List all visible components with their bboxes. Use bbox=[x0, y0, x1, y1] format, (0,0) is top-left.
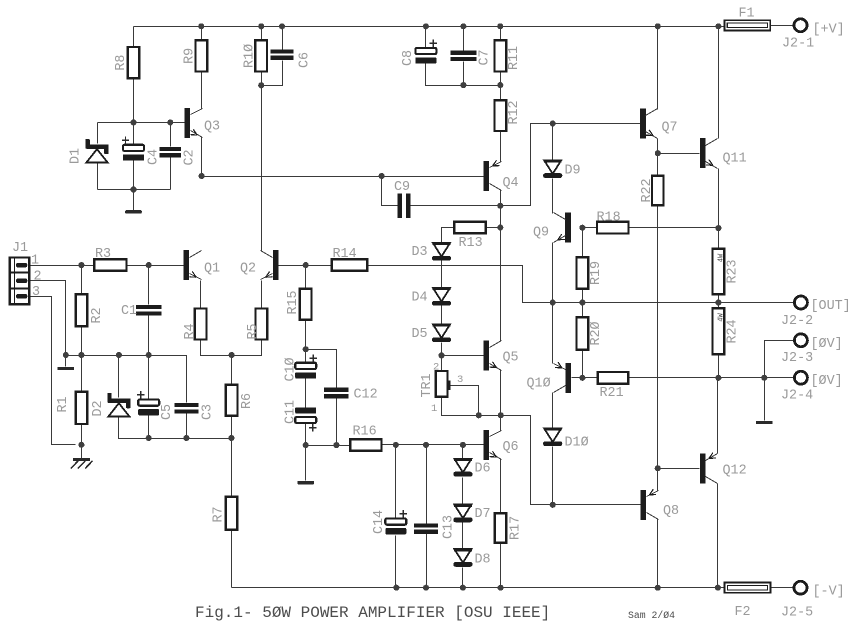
label R5 bbox=[246, 323, 261, 339]
wire J2-3 lead bbox=[765, 341, 794, 378]
wire J1 pin2 down bbox=[30, 281, 66, 356]
wire R9 top lead bbox=[201, 27, 203, 41]
wire D2 bottom lead bbox=[119, 417, 149, 439]
svg-text:R8: R8 bbox=[114, 55, 129, 71]
wire R1 bottom lead bbox=[81, 425, 83, 445]
junction R11-R12 junction bbox=[497, 82, 503, 88]
ground pin2 node bbox=[58, 367, 75, 370]
junction C4 bottom / ground node bbox=[130, 186, 136, 192]
wire R20 bottom lead bbox=[582, 350, 584, 378]
terminal J2-4 bbox=[794, 371, 807, 384]
svg-text:C8: C8 bbox=[401, 50, 416, 66]
svg-text:C3: C3 bbox=[201, 404, 216, 420]
pin 3 label TR1 bbox=[457, 374, 463, 386]
svg-text:R16: R16 bbox=[353, 425, 377, 440]
label Q3 bbox=[204, 120, 220, 135]
svg-text:[+V]: [+V] bbox=[813, 23, 845, 38]
wire Q2 base to node bbox=[279, 265, 306, 267]
wire D9 top lead bbox=[552, 124, 554, 161]
junction R15 bottom / C10 / C12 node bbox=[303, 346, 309, 352]
capacitor C10 bbox=[295, 354, 317, 378]
net label [0V] J2-4 bbox=[811, 374, 843, 389]
wire R17 bottom lead bbox=[500, 543, 502, 588]
resistor R1 bbox=[76, 392, 88, 424]
resistor R21 bbox=[598, 372, 629, 384]
resistor R12 bbox=[495, 100, 507, 131]
svg-text:Q8: Q8 bbox=[663, 504, 679, 519]
wire Q6 collector lead bbox=[500, 416, 502, 431]
fuse F2 bbox=[725, 583, 771, 593]
transistor Q8 bbox=[640, 489, 658, 520]
connector J1 bbox=[10, 258, 30, 305]
wire J2-4 rail link bbox=[719, 377, 765, 379]
wire F2 to J2-5 bbox=[771, 587, 794, 589]
capacitor C4 bbox=[122, 137, 144, 161]
wire J1 pin1 to R3 bbox=[30, 265, 95, 267]
svg-text:4W: 4W bbox=[717, 253, 725, 262]
junction D6 top / Q6 base rail bbox=[460, 442, 466, 448]
junction Q3 emitter / Q1 collector bbox=[199, 173, 205, 179]
wire D1-C4-C2 top rail bbox=[98, 122, 185, 124]
label D9 bbox=[565, 164, 581, 179]
label R9 bbox=[183, 48, 198, 64]
svg-text:C1Ø: C1Ø bbox=[284, 357, 299, 381]
junction R8-C4-D1 node bbox=[130, 119, 136, 125]
resistor R23 bbox=[713, 249, 725, 294]
label R8 bbox=[114, 55, 129, 71]
svg-text:[ØV]: [ØV] bbox=[811, 337, 843, 352]
ground below C4 bbox=[125, 210, 142, 213]
junction Q7 emitter / Q11 base / R22 bbox=[655, 150, 661, 156]
wire C14 bottom lead bbox=[395, 536, 397, 588]
capacitor C3 bbox=[174, 403, 198, 414]
junction J2-3/J2-4 ground tie bbox=[761, 375, 767, 381]
wire C1 bottom lead bbox=[148, 316, 150, 356]
wire Q7 emitter lead bbox=[657, 139, 659, 154]
wire D3-D4 link bbox=[441, 261, 443, 288]
wire Q5 emitter lead bbox=[500, 371, 502, 416]
wire R16 left rail bbox=[306, 445, 351, 447]
junction R20 / Q10 base / R21 node bbox=[579, 375, 585, 381]
junction R9 top / +V bus bbox=[198, 23, 204, 29]
svg-text:1: 1 bbox=[431, 403, 437, 415]
wire R13 right lead bbox=[486, 227, 501, 229]
svg-text:J2-1: J2-1 bbox=[782, 37, 814, 52]
wire C7 bottom lead bbox=[463, 62, 465, 86]
junction C8 top / +V bus bbox=[423, 23, 429, 29]
wire Q8 emitter lead bbox=[657, 469, 659, 491]
label TR1 bbox=[420, 373, 435, 397]
wire R1 top lead bbox=[81, 356, 83, 392]
capacitor C13 bbox=[414, 523, 438, 534]
junction R17 bottom / -V bus bbox=[498, 585, 504, 591]
svg-text:TR1: TR1 bbox=[420, 373, 435, 397]
wire Q8 collector lead bbox=[657, 520, 659, 588]
svg-text:C2: C2 bbox=[183, 149, 198, 165]
junction C7 bottom rail bbox=[460, 82, 466, 88]
svg-text:Q2: Q2 bbox=[240, 262, 256, 277]
label D7 bbox=[475, 507, 491, 522]
ground below J2-4 bbox=[756, 421, 773, 424]
resistor R18 bbox=[597, 222, 629, 234]
svg-text:J2-4: J2-4 bbox=[781, 389, 813, 404]
junction C5 top / gnd bus bbox=[146, 352, 152, 358]
wire C10-C11 link bbox=[305, 379, 307, 408]
svg-text:R5: R5 bbox=[246, 323, 261, 339]
junction R24 bottom / Q12 emitter node bbox=[715, 375, 721, 381]
junction C11 bottom / R16 / gnd node bbox=[303, 442, 309, 448]
junction C7 top / +V bus bbox=[460, 23, 466, 29]
junction C3 bottom rail bbox=[183, 435, 189, 441]
svg-text:C1: C1 bbox=[121, 304, 137, 319]
wire R23 top lead bbox=[718, 229, 720, 249]
transistor Q1 bbox=[183, 250, 201, 280]
label R4 bbox=[183, 323, 198, 339]
label R11 bbox=[507, 46, 522, 70]
label J2-5 bbox=[781, 606, 813, 621]
wire Q11 collector lead bbox=[718, 27, 720, 139]
wire feedback R14 rail bbox=[368, 266, 794, 303]
svg-text:R11: R11 bbox=[507, 46, 522, 70]
resistor R11 bbox=[495, 40, 507, 71]
wire R21 left lead bbox=[583, 377, 598, 379]
svg-text:C14: C14 bbox=[372, 510, 387, 534]
junction TR1 pin1-pin3 tie bbox=[476, 412, 482, 418]
label R22 bbox=[640, 178, 655, 202]
zener D1 bbox=[85, 139, 108, 163]
label J2-2 bbox=[781, 314, 813, 329]
svg-text:D7: D7 bbox=[475, 507, 491, 522]
wire Q7 collector lead bbox=[657, 27, 659, 110]
pin 3 label J1 bbox=[32, 285, 40, 300]
terminal J2-2 bbox=[794, 296, 807, 309]
resistor R10 bbox=[255, 40, 267, 71]
svg-text:Sam 2/Ø4: Sam 2/Ø4 bbox=[628, 610, 675, 621]
diode D6 bbox=[453, 459, 472, 477]
wire J1 pin3 down bbox=[30, 297, 76, 445]
wire Q4 collector lead bbox=[500, 191, 502, 206]
value label 4W R23 bbox=[717, 253, 725, 262]
resistor R7 bbox=[226, 497, 238, 530]
wire Q6 emitter to R17 bbox=[500, 460, 502, 514]
junction C9 tee / Q4 base rail bbox=[379, 173, 385, 179]
net label [0V] J2-3 bbox=[811, 337, 843, 352]
wire C5 top lead bbox=[148, 356, 150, 400]
wire Q12 collector lead bbox=[717, 484, 719, 588]
wire R23 bottom lead bbox=[718, 295, 720, 303]
resistor R24 bbox=[713, 308, 725, 354]
terminal J2-5 bbox=[794, 581, 807, 594]
svg-text:D1Ø: D1Ø bbox=[565, 436, 589, 451]
ground below C11 bbox=[297, 481, 314, 484]
label Q9 bbox=[533, 226, 549, 241]
svg-text:D8: D8 bbox=[475, 553, 491, 568]
capacitor C14 bbox=[385, 510, 407, 534]
wire R8 bottom lead bbox=[133, 79, 135, 123]
junction D8 bottom / -V bus bbox=[460, 585, 466, 591]
wire +V top bus bbox=[134, 26, 725, 28]
wire C4 ground stub bbox=[133, 190, 135, 211]
label R1 bbox=[56, 396, 71, 412]
wire R9 to Q3 collector bbox=[201, 72, 203, 109]
wire R16 right rail bbox=[382, 444, 484, 446]
wire C9 right lead bbox=[411, 205, 501, 207]
wire Q9 emitter to OUT rail bbox=[552, 243, 554, 303]
wire R21 right lead bbox=[629, 377, 719, 379]
transistor Q6 bbox=[484, 430, 502, 460]
terminal J2-3 bbox=[794, 334, 807, 347]
net label [+V] bbox=[813, 23, 845, 38]
junction R11 top / +V bus bbox=[497, 23, 503, 29]
label R15 bbox=[286, 290, 301, 314]
svg-text:D5: D5 bbox=[412, 327, 428, 342]
terminal J2-1 bbox=[794, 19, 807, 32]
junction C12 bottom / R16 rail bbox=[333, 442, 339, 448]
wire OUT rail to Q10 emitter bbox=[552, 303, 554, 364]
diode D4 bbox=[432, 288, 451, 306]
label C5 bbox=[160, 404, 175, 420]
svg-text:J1: J1 bbox=[12, 241, 28, 256]
junction C13 top / Q6 base rail bbox=[423, 442, 429, 448]
wire R10 top lead bbox=[261, 27, 263, 41]
svg-text:R3: R3 bbox=[95, 247, 111, 262]
capacitor C6 bbox=[271, 49, 294, 60]
label D8 bbox=[475, 553, 491, 568]
junction Q9 base / R18 / R19 node bbox=[579, 225, 585, 231]
label R23 bbox=[726, 259, 741, 283]
junction R6 bottom / R7 top bbox=[228, 435, 234, 441]
label Q2 bbox=[240, 262, 256, 277]
label Q11 bbox=[723, 152, 747, 167]
wire D8 bottom lead bbox=[462, 568, 464, 588]
wire gnd stub pin2 node bbox=[65, 356, 67, 367]
label C12 bbox=[354, 388, 378, 403]
label C8 bbox=[401, 50, 416, 66]
label J1 bbox=[12, 241, 28, 256]
junction Q8 collector / -V bus bbox=[655, 585, 661, 591]
wire D7-D8 link bbox=[462, 523, 464, 550]
junction Q12 collector / F2 node bbox=[715, 585, 721, 591]
label Q5 bbox=[503, 351, 519, 366]
resistor R14 bbox=[332, 259, 367, 271]
label R18 bbox=[597, 211, 621, 226]
junction D10 bottom / Q8 base rail bbox=[550, 502, 556, 508]
diode D8 bbox=[453, 549, 472, 567]
wire -V bottom bus bbox=[232, 587, 725, 589]
label Q1 bbox=[204, 262, 220, 277]
label D2 bbox=[91, 400, 106, 416]
wire R22 top lead bbox=[657, 154, 659, 176]
wire Q7 to Q11 base bbox=[658, 153, 700, 155]
wire R1 gnd stub bbox=[81, 445, 83, 460]
svg-text:[-V]: [-V] bbox=[813, 585, 845, 600]
wire R19 bottom lead bbox=[582, 289, 584, 303]
label R3 bbox=[95, 247, 111, 262]
transistor Q10 bbox=[554, 362, 572, 393]
wire R15 to C10 bbox=[305, 320, 307, 350]
label R14 bbox=[333, 247, 357, 262]
svg-text:Q12: Q12 bbox=[723, 464, 747, 479]
transistor Q11 bbox=[700, 138, 718, 168]
wire R11 top lead bbox=[500, 27, 502, 41]
svg-text:Q1Ø: Q1Ø bbox=[527, 377, 551, 392]
svg-text:1: 1 bbox=[31, 254, 39, 269]
resistor R9 bbox=[196, 40, 208, 71]
diode D3 bbox=[432, 243, 451, 261]
junction Q8 emitter / Q12 base / R22 rail bbox=[655, 465, 661, 471]
transistor Q12 bbox=[700, 453, 718, 484]
label R13 bbox=[459, 236, 483, 251]
junction Q7 collector / +V bus bbox=[655, 23, 661, 29]
junction C5 bottom rail bbox=[146, 435, 152, 441]
label R17 bbox=[509, 516, 524, 540]
label C13 bbox=[442, 515, 457, 539]
wire C11 bottom lead bbox=[305, 424, 307, 446]
junction R3 / C1 / Q1 base node bbox=[146, 262, 152, 268]
svg-text:3: 3 bbox=[457, 374, 463, 386]
wire C6 top lead bbox=[282, 27, 284, 50]
label C11 bbox=[284, 400, 299, 424]
label R20 bbox=[589, 321, 604, 345]
svg-text:C13: C13 bbox=[442, 515, 457, 539]
junction C14 bottom / -V bus bbox=[393, 585, 399, 591]
svg-text:J2-3: J2-3 bbox=[781, 351, 813, 366]
junction Q5 emitter / Q6 collector node bbox=[498, 412, 504, 418]
label Q8 bbox=[663, 504, 679, 519]
wire Q8 to Q12 base bbox=[658, 468, 700, 470]
wire R18 right lead bbox=[629, 227, 719, 229]
svg-text:R17: R17 bbox=[509, 516, 524, 540]
resistor R15 bbox=[300, 289, 312, 320]
junction C6 top / +V bus bbox=[279, 23, 285, 29]
transistor Q2 bbox=[261, 250, 279, 280]
capacitor C11 bbox=[295, 407, 316, 431]
svg-text:D9: D9 bbox=[565, 164, 581, 179]
resistor R2 bbox=[76, 294, 88, 326]
label R10 bbox=[243, 44, 258, 68]
svg-text:R6: R6 bbox=[240, 393, 255, 409]
junction D5 / TR1 pin2 / Q5 base node bbox=[438, 352, 444, 358]
label D5 bbox=[412, 327, 428, 342]
svg-text:D3: D3 bbox=[412, 245, 428, 260]
resistor R4 bbox=[195, 309, 207, 340]
wire R19 top lead bbox=[582, 228, 584, 258]
wire C8 bottom lead bbox=[426, 64, 464, 86]
value label 4W R24 bbox=[717, 313, 725, 322]
wire node to VAS corner bbox=[501, 124, 641, 206]
resistor R13 bbox=[454, 222, 486, 234]
wire C8 top lead bbox=[425, 27, 427, 48]
label C10 bbox=[284, 357, 299, 381]
resistor R5 bbox=[256, 309, 268, 340]
pin 2 label TR1 bbox=[433, 362, 439, 374]
pin 1 label TR1 bbox=[431, 403, 437, 415]
wire Q10 base lead bbox=[572, 377, 583, 379]
wire D2 top lead bbox=[118, 356, 120, 398]
wire R20 top lead bbox=[582, 303, 584, 318]
wire C2 top lead bbox=[170, 123, 172, 147]
wire D6-D7 link bbox=[462, 478, 464, 505]
capacitor C5 bbox=[137, 391, 159, 415]
wire R8 top lead bbox=[133, 27, 135, 47]
svg-text:Q11: Q11 bbox=[723, 152, 747, 167]
svg-text:R2: R2 bbox=[90, 307, 105, 323]
label Q10 bbox=[527, 377, 551, 392]
label Q12 bbox=[723, 464, 747, 479]
wire R18 left lead bbox=[583, 227, 598, 229]
wire F1 to J2-1 bbox=[771, 25, 794, 27]
wire R7 top lead bbox=[231, 439, 233, 497]
wire D4-D5 link bbox=[441, 306, 443, 325]
wire R15 top lead bbox=[305, 266, 307, 289]
wire TR1 pin2 lead bbox=[441, 356, 443, 372]
wire C4 top lead bbox=[133, 123, 135, 145]
svg-text:R15: R15 bbox=[286, 290, 301, 314]
wire Q10 collector to D10 bbox=[552, 393, 554, 429]
label C9 bbox=[394, 180, 410, 195]
wire Q4-Q5 collector rail bbox=[500, 206, 502, 341]
junction J1 pin1 / R3 / R2 node bbox=[78, 262, 84, 268]
wire R2 bottom lead bbox=[81, 327, 83, 356]
svg-text:C9: C9 bbox=[394, 180, 410, 195]
wire C12 bottom lead bbox=[336, 399, 338, 446]
wire R14 left lead bbox=[306, 265, 332, 267]
svg-text:C6: C6 bbox=[298, 52, 313, 68]
label C7 bbox=[478, 49, 493, 65]
diode D9 bbox=[543, 160, 562, 178]
capacitor C2 bbox=[160, 147, 182, 158]
label C1 bbox=[121, 304, 137, 319]
diode D5 bbox=[432, 324, 451, 342]
capacitor C12 bbox=[324, 388, 349, 399]
wire Q3 emitter to node bbox=[201, 138, 203, 177]
wire C14 top lead bbox=[395, 445, 397, 519]
svg-text:Q9: Q9 bbox=[533, 226, 549, 241]
svg-text:R1Ø: R1Ø bbox=[243, 44, 258, 68]
caption title bbox=[195, 604, 550, 622]
wire C3 bottom lead bbox=[186, 414, 188, 439]
label Q6 bbox=[503, 440, 519, 455]
label R6 bbox=[240, 393, 255, 409]
svg-text:F2: F2 bbox=[735, 605, 751, 620]
label R21 bbox=[600, 386, 624, 401]
wire input ground bus bbox=[66, 356, 187, 403]
junction Q9 emitter / OUT rail bbox=[550, 299, 556, 305]
label C14 bbox=[372, 510, 387, 534]
wire R12 to Q4 emitter bbox=[500, 132, 502, 162]
svg-text:Q7: Q7 bbox=[662, 121, 678, 136]
svg-text:Q1: Q1 bbox=[204, 262, 220, 277]
wire C9 left lead bbox=[382, 177, 398, 206]
wire R24 bottom lead bbox=[718, 355, 720, 378]
junction Q2 base / R15 / R14 node bbox=[303, 262, 309, 268]
wire C7 top lead bbox=[463, 27, 465, 51]
svg-text:R9: R9 bbox=[183, 48, 198, 64]
fuse F1 bbox=[724, 20, 770, 30]
transistor Q7 bbox=[640, 109, 657, 139]
label R19 bbox=[589, 261, 604, 285]
junction R19-R20 / OUT rail bbox=[579, 299, 585, 305]
wire R11-R12 link bbox=[500, 72, 502, 101]
junction C2 top / Q3 base bbox=[167, 119, 173, 125]
label D6 bbox=[475, 462, 491, 477]
svg-text:C5: C5 bbox=[160, 404, 175, 420]
label R12 bbox=[507, 100, 522, 124]
junction R2 bottom / gnd bus bbox=[78, 352, 84, 358]
wire left bottom rail bbox=[149, 438, 232, 440]
wire J2-4 lead bbox=[765, 377, 794, 379]
resistor R19 bbox=[577, 257, 589, 289]
